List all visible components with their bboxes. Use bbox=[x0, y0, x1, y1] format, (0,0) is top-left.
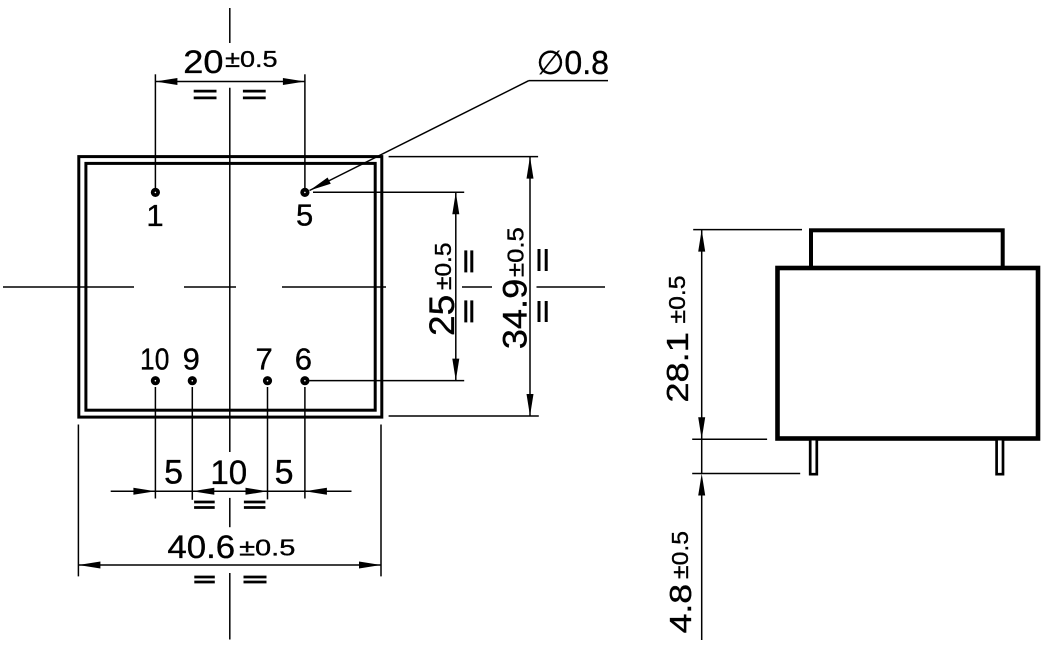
dimension 28.1±0.5 (body height, side view) bbox=[660, 230, 802, 440]
svg-text:±0.5: ±0.5 bbox=[503, 227, 529, 277]
svg-text:4.8: 4.8 bbox=[663, 584, 698, 634]
svg-text:±0.5: ±0.5 bbox=[239, 535, 295, 561]
pin 10 bbox=[140, 342, 169, 384]
side view pin left bbox=[810, 441, 817, 475]
side view pin right bbox=[997, 441, 1003, 475]
dimension 25±0.5 (vertical pin spacing) bbox=[310, 192, 472, 380]
svg-text:25: 25 bbox=[422, 295, 462, 336]
svg-text:9: 9 bbox=[183, 342, 200, 377]
dimension 20±0.5 (top pin spacing) bbox=[155, 44, 305, 188]
svg-text:10: 10 bbox=[210, 454, 247, 492]
transformer side view: main body bbox=[778, 268, 1039, 439]
vertical centerline (top view) bbox=[229, 8, 231, 640]
horizontal centerline (top view) bbox=[3, 286, 605, 288]
svg-text:40.6: 40.6 bbox=[167, 529, 235, 565]
svg-text:∅0.8: ∅0.8 bbox=[537, 44, 610, 81]
pin 9 bbox=[183, 342, 200, 384]
pin 1 bbox=[146, 190, 163, 234]
svg-text:10: 10 bbox=[140, 342, 169, 377]
svg-text:±0.5: ±0.5 bbox=[430, 243, 456, 291]
svg-text:5: 5 bbox=[296, 197, 313, 232]
transformer side view: coil cap bbox=[811, 230, 1003, 268]
pin 7 bbox=[255, 342, 272, 384]
transformer body outline inner (top view) bbox=[86, 163, 375, 410]
pin 5 bbox=[296, 190, 313, 233]
callout ø0.8 (pin diameter leader) bbox=[308, 44, 609, 194]
pin 6 bbox=[295, 342, 312, 384]
svg-text:±0.5: ±0.5 bbox=[225, 46, 278, 72]
dimension 5 / 10 / 5 (bottom pin spacing) bbox=[111, 387, 352, 508]
dimension 4.8±0.5 (pin length, side view) bbox=[663, 439, 800, 640]
dimension 34.9±0.5 (body height, top view) bbox=[389, 157, 547, 416]
svg-text:34.9: 34.9 bbox=[497, 279, 535, 350]
svg-text:20: 20 bbox=[183, 44, 223, 80]
svg-text:7: 7 bbox=[255, 342, 272, 377]
svg-text:5: 5 bbox=[164, 453, 183, 491]
svg-text:±0.5: ±0.5 bbox=[667, 531, 693, 579]
transformer body outline outer (top view) bbox=[79, 157, 382, 418]
svg-text:1: 1 bbox=[146, 198, 163, 233]
svg-text:28.1: 28.1 bbox=[660, 332, 695, 403]
svg-text:5: 5 bbox=[275, 453, 294, 491]
svg-text:±0.5: ±0.5 bbox=[664, 276, 690, 324]
dimension 40.6±0.5 (body width) bbox=[78, 425, 381, 583]
svg-text:6: 6 bbox=[295, 342, 312, 377]
